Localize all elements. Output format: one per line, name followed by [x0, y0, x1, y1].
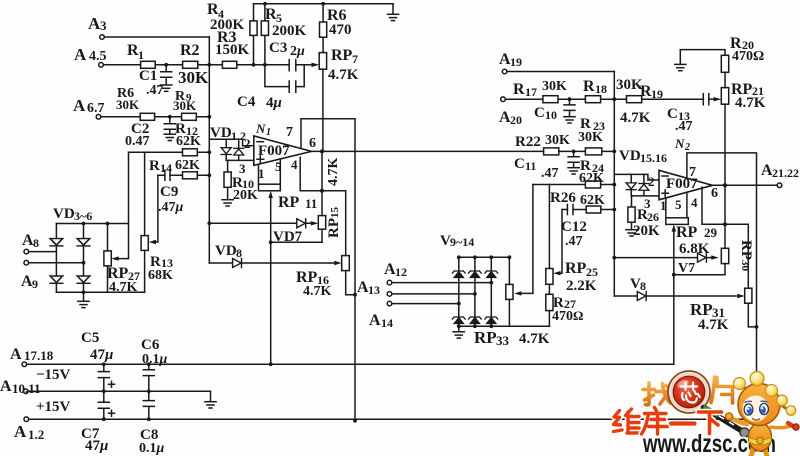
svg-text:.47: .47: [541, 166, 559, 181]
wire vertical to RP33 wiper: [521, 185, 533, 294]
magnifier glass ring: [668, 371, 710, 413]
svg-text:4.7K: 4.7K: [303, 284, 332, 299]
node A6.7 terminal: [96, 115, 101, 120]
svg-text:.47: .47: [565, 234, 583, 249]
wire N2 output: [713, 184, 778, 186]
junction RP11 wiper / RP15 bottom: [269, 240, 273, 244]
svg-text:C: C: [514, 156, 525, 172]
diode VD4: [77, 239, 90, 246]
wire R26b leads: [631, 196, 633, 229]
wire RP27 bottom: [107, 266, 109, 292]
wire A10.11 rail to ground: [28, 391, 210, 401]
svg-text:C: C: [534, 105, 545, 121]
wire A13 to V array col2: [392, 293, 475, 295]
junction R12 at summing line: [207, 150, 211, 154]
svg-text:47μ: 47μ: [85, 438, 108, 454]
junction R4 bottom on R3 wire: [252, 63, 256, 67]
svg-text:14: 14: [381, 316, 393, 330]
junction A14 at col1: [457, 302, 461, 306]
wire N1 clamp box top / pin2: [209, 139, 254, 146]
junction bridge col2 bottom / ground: [82, 290, 86, 294]
mascot antenna stalks: [741, 381, 788, 410]
svg-text:20K: 20K: [633, 223, 660, 239]
junction V array top col2: [473, 255, 477, 259]
junction R14 at summing line: [207, 173, 211, 177]
junction N2 output node: [723, 183, 727, 187]
capacitor C4 loop: [265, 65, 304, 92]
wire A19 to summing vertical N2: [507, 71, 614, 73]
watermark red text ku (库): [642, 408, 668, 435]
op-amp N1 triangle: [254, 136, 312, 166]
svg-text:6: 6: [309, 136, 316, 151]
wire RP29 wiper down to -15V rail: [673, 231, 675, 364]
node A20 terminal: [501, 97, 506, 102]
wire V array col2: [474, 257, 476, 326]
watermark char zhao (找) white halo: [643, 383, 671, 405]
svg-text:11: 11: [525, 159, 536, 173]
svg-text:20: 20: [510, 113, 522, 127]
node A17.18 terminal: [22, 362, 27, 367]
zener V14: [485, 317, 498, 324]
wire C12 R26 branch: [562, 209, 614, 211]
svg-text:4.7K: 4.7K: [326, 158, 341, 187]
node A4.5 terminal: [99, 63, 104, 68]
resistor R26 62K: [586, 206, 601, 213]
svg-text:2: 2: [648, 174, 655, 189]
wire R13 bottom to bridge rail: [144, 250, 146, 292]
mascot legs: [751, 447, 767, 456]
junction C10 node: [568, 97, 572, 101]
wire N1 to N2 coupling row R22 R23: [544, 150, 615, 152]
svg-text:8: 8: [640, 279, 646, 293]
zener V10: [469, 271, 482, 278]
junction V7 wire at summing line: [612, 256, 616, 260]
svg-text:47μ: 47μ: [90, 347, 113, 363]
svg-text:4.7K: 4.7K: [620, 110, 651, 126]
wire N1 pin7 to supply box: [301, 119, 355, 421]
diode VD3: [50, 239, 63, 246]
wire R20 to RP21: [724, 72, 726, 87]
junction V array top RP33: [508, 255, 512, 259]
svg-text:.47μ: .47μ: [158, 200, 184, 215]
svg-text:C12: C12: [561, 219, 587, 235]
svg-text:RP15: RP15: [326, 207, 342, 239]
mascot belt: [749, 437, 771, 445]
svg-text:RP: RP: [676, 224, 698, 241]
svg-text:470Ω: 470Ω: [732, 49, 764, 64]
node A12 terminal: [387, 280, 392, 285]
wire vertical to RP27 wiper: [118, 152, 129, 258]
wire V array col1: [458, 257, 460, 326]
svg-text:C6: C6: [141, 337, 160, 353]
wire RP15 bottom to RP11 wiper column: [271, 241, 322, 243]
ground mid rail: [205, 402, 216, 408]
junction V array top col1: [457, 255, 461, 259]
svg-text:4: 4: [291, 157, 298, 172]
svg-text:4.7K: 4.7K: [109, 280, 138, 295]
svg-text:0.1μ: 0.1μ: [139, 441, 165, 456]
wire R20 ground arm: [680, 50, 725, 64]
svg-text:0.47: 0.47: [125, 134, 150, 149]
potentiometer RP25: [546, 269, 553, 285]
wire -15V rail: [27, 363, 674, 365]
ground top right: [392, 4, 394, 14]
svg-text:2μ: 2μ: [290, 44, 305, 59]
junction N1 output node: [320, 149, 324, 153]
svg-text:7: 7: [352, 52, 358, 66]
svg-text:3: 3: [239, 161, 246, 176]
capacitor C2: [164, 117, 175, 134]
wire vertical to RP25: [548, 185, 550, 269]
wire C9 R14 branch: [158, 174, 209, 176]
capacitor C7: [98, 391, 109, 419]
potentiometer RP15: [318, 216, 325, 230]
junction C8 bottom: [147, 417, 151, 421]
svg-text:C1: C1: [139, 68, 157, 84]
minus sign N1: [257, 141, 264, 143]
mascot mouth: [753, 419, 760, 421]
wire summing vertical N2: [613, 72, 615, 297]
svg-text:13: 13: [368, 283, 380, 297]
potentiometer RP31: [745, 288, 752, 303]
svg-text:4: 4: [691, 195, 698, 210]
svg-text:VD: VD: [53, 206, 75, 222]
svg-text:R: R: [583, 78, 595, 95]
svg-text:RP30: RP30: [738, 240, 754, 272]
junction VD7 wire at summing line: [207, 221, 211, 225]
wire VD8 row: [209, 262, 330, 264]
capacitor C10: [564, 99, 575, 116]
svg-text:12: 12: [395, 265, 407, 279]
svg-text:4.7K: 4.7K: [328, 67, 359, 83]
wiper arrow into RP7: [312, 63, 320, 67]
svg-text:20K: 20K: [233, 188, 258, 203]
wire V array top rail: [459, 256, 510, 258]
wire N1 clamp box bottom / pin3: [226, 139, 254, 160]
node A8 terminal: [24, 249, 29, 254]
diode VD6: [77, 276, 90, 283]
junction RP16 at supply column: [353, 293, 357, 297]
svg-text:62K: 62K: [176, 134, 201, 149]
diode VD2: [234, 148, 244, 155]
wire V array col3: [490, 257, 492, 326]
svg-text:18: 18: [595, 82, 607, 96]
plus sign N1: [257, 156, 264, 163]
svg-text:7: 7: [286, 125, 293, 140]
junction V array bottom col2: [473, 324, 477, 328]
ground below bridge: [83, 292, 85, 301]
svg-text:6.7: 6.7: [87, 101, 105, 116]
svg-text:C5: C5: [81, 330, 99, 346]
junction C7 bottom: [102, 417, 106, 421]
zener V9: [452, 271, 465, 278]
mascot left arm holding handle: [730, 417, 747, 424]
svg-text:7: 7: [689, 165, 696, 180]
ground below R10: [222, 200, 233, 206]
wiper arrow into RP15: [311, 221, 319, 225]
resistor R17: [543, 96, 558, 103]
junction bridge col2 top: [82, 222, 86, 226]
mascot face: [742, 395, 768, 421]
svg-text:1: 1: [138, 48, 144, 62]
wire output down to RP30 node: [724, 185, 726, 248]
svg-text:R26: R26: [550, 190, 576, 206]
wire -15V rail corner up to RP29 wiper column: [673, 363, 675, 365]
ground below R26b: [626, 230, 637, 236]
wire RP25 to R27: [548, 284, 550, 294]
junction R5 top: [263, 2, 267, 6]
junction RP30 top node: [723, 222, 727, 226]
junction A13 at col2: [473, 292, 477, 296]
wire C9 down to R13 wiper: [155, 175, 158, 242]
svg-text:A: A: [369, 312, 381, 329]
potentiometer RP16: [342, 256, 350, 271]
ground below C1: [161, 85, 172, 91]
svg-text:33: 33: [496, 333, 510, 348]
svg-text:RP: RP: [474, 328, 497, 347]
watermark red text yi (一): [671, 420, 695, 427]
diode VD5: [50, 276, 63, 283]
svg-text:VD: VD: [210, 125, 232, 141]
mascot eyes: [744, 404, 753, 415]
resistor R26b 20K: [628, 207, 635, 222]
junction R9 to summing line: [207, 115, 211, 119]
junction C5 top: [102, 362, 106, 366]
svg-text:30K: 30K: [545, 133, 570, 148]
svg-text:17: 17: [525, 85, 537, 99]
resistor R9 30K: [182, 113, 197, 120]
wire N1 output: [312, 150, 544, 152]
mascot antenna bulbs: [734, 378, 746, 390]
resistor R12: [183, 149, 198, 156]
svg-text:1: 1: [266, 127, 271, 138]
wire A14 to V array col1: [392, 303, 459, 305]
wire A12 to V array col3: [392, 282, 492, 284]
svg-text:5: 5: [675, 197, 682, 212]
svg-text:15.16: 15.16: [640, 151, 667, 165]
junction V array top col3: [489, 255, 493, 259]
watermark red text wei (维): [614, 409, 641, 433]
svg-text:21.22: 21.22: [772, 166, 799, 180]
wire N2 pin4: [702, 187, 748, 288]
junction RP30 bottom at RP29 wiper column: [672, 273, 676, 277]
capacitor C9: [165, 170, 170, 180]
svg-text:R: R: [513, 81, 525, 98]
wire RP30 bottom: [674, 264, 725, 275]
wire vertical to R13 top: [144, 152, 146, 235]
svg-text:VD: VD: [619, 148, 641, 164]
wire RP7 bottom to N1 output: [322, 69, 324, 151]
svg-text:RP: RP: [278, 194, 300, 211]
resistor R19: [627, 96, 642, 103]
diode V8: [637, 292, 646, 301]
svg-text:2: 2: [684, 142, 690, 153]
resistor R2: [183, 61, 198, 68]
svg-text:A: A: [10, 346, 22, 363]
svg-text:19: 19: [651, 87, 663, 101]
wire RP16 bottom to supply column: [346, 271, 355, 295]
plus sign C5: [109, 381, 115, 387]
svg-text:3: 3: [100, 18, 107, 33]
capacitor C12: [567, 205, 573, 215]
wire A6.7 input row: [101, 116, 210, 118]
svg-text:68K: 68K: [148, 268, 173, 283]
junction A12 at col3: [489, 281, 493, 285]
wiper arrow RP11: [269, 191, 273, 198]
wiper arrow into R13: [149, 240, 156, 244]
junction R6 top: [321, 2, 325, 6]
capacitor C13: [703, 94, 709, 105]
capacitor C1: [161, 65, 172, 85]
potentiometer RP7: [319, 53, 326, 70]
wire summing vertical N1 (A3 node down to VD8 corner): [208, 37, 210, 263]
diode VD16: [639, 184, 649, 191]
svg-text:C3: C3: [269, 40, 287, 56]
wire A8 to bridge: [29, 251, 57, 253]
junction C1 node: [164, 63, 168, 67]
wire output down to RP15 node: [321, 151, 323, 190]
wire V8 row: [614, 295, 736, 297]
capacitor C5: [98, 364, 109, 391]
svg-text:30K: 30K: [578, 130, 603, 145]
wiper arrow into RP16: [334, 261, 342, 265]
resistor R1: [141, 61, 156, 68]
ground R20 arm: [675, 64, 686, 70]
ground below C10: [564, 117, 575, 123]
capacitor C11: [568, 151, 579, 167]
svg-text:A: A: [0, 378, 12, 395]
svg-text:−15V: −15V: [36, 367, 71, 383]
resistor R4: [250, 21, 257, 36]
svg-text:17.18: 17.18: [24, 348, 54, 363]
svg-text:.47: .47: [146, 83, 164, 98]
svg-text:R22: R22: [515, 134, 541, 150]
resistor R5: [261, 21, 268, 36]
svg-text:R: R: [149, 158, 160, 174]
node A19 terminal: [502, 69, 507, 74]
potentiometer RP33: [506, 284, 513, 299]
svg-text:200K: 200K: [272, 23, 307, 39]
capacitor C6: [143, 364, 154, 391]
svg-text:4.5: 4.5: [89, 49, 107, 64]
wiper arrow into RP21: [714, 97, 722, 101]
potentiometer RP11: [259, 184, 281, 191]
svg-text:5: 5: [275, 159, 282, 174]
wire RP15 node to RP16 column: [322, 191, 346, 256]
junction V array bottom col3: [489, 324, 493, 328]
svg-text:30K: 30K: [116, 97, 140, 112]
op-amp N2 triangle: [659, 170, 713, 200]
node A3 terminal: [100, 35, 105, 40]
node A13 terminal: [387, 292, 392, 297]
diode VD7: [297, 219, 306, 228]
svg-text:9: 9: [32, 277, 38, 291]
junction V array bottom ground: [457, 324, 461, 328]
wire RP27 top to bridge top rail: [107, 224, 109, 251]
resistor R27: [546, 294, 553, 310]
potentiometer RP30: [721, 248, 728, 263]
diode V7: [698, 253, 707, 262]
junction RP15 top node: [320, 189, 324, 193]
wire C12 down to RP25 wiper: [560, 210, 563, 274]
wiper arrow into RP27: [111, 256, 118, 260]
resistor R6b 470: [320, 22, 327, 37]
ground below C11: [568, 168, 579, 174]
junction C5 bottom: [102, 389, 106, 393]
svg-text:3~6: 3~6: [74, 209, 92, 223]
junction R26 at summing vertical: [612, 208, 616, 212]
svg-text:0.1μ: 0.1μ: [142, 352, 168, 367]
svg-text:4.7K: 4.7K: [519, 331, 550, 347]
svg-text:30K: 30K: [542, 79, 567, 94]
svg-text:1.2: 1.2: [28, 427, 44, 442]
resistor R8 30K: [140, 113, 154, 120]
svg-text:10.11: 10.11: [12, 381, 41, 396]
svg-text:6: 6: [711, 186, 718, 201]
wire bridge column 2: [83, 224, 85, 293]
svg-text:19: 19: [510, 55, 522, 69]
node A21.22 terminal: [777, 183, 782, 188]
svg-text:C4: C4: [237, 94, 256, 110]
zener V12: [452, 317, 465, 324]
wire R27 bottom to V array rail: [548, 311, 550, 327]
wire A9 to bridge: [29, 262, 84, 264]
wire R24 feedback branch: [533, 184, 614, 186]
node A10.11 terminal: [24, 389, 29, 394]
svg-text:1: 1: [660, 198, 667, 213]
svg-text:62K: 62K: [175, 158, 200, 173]
svg-text:A: A: [73, 96, 86, 115]
wire V7 row: [614, 257, 711, 259]
svg-text:A: A: [14, 422, 27, 441]
junction C2 node: [168, 115, 172, 119]
wire R12 feedback branch: [129, 151, 210, 153]
svg-text:30K: 30K: [616, 77, 643, 93]
wiper arrow into RP33: [514, 291, 521, 295]
ground below C2: [164, 134, 175, 140]
lens highlight: [676, 378, 690, 389]
svg-text:10: 10: [545, 108, 557, 122]
wire N2 clamp box bottom / pin3: [631, 174, 659, 196]
junction R23 at summing vertical: [612, 150, 616, 154]
svg-text:11: 11: [305, 196, 317, 211]
resistor R23: [585, 148, 601, 155]
wire N2 clamp box top / pin2: [614, 174, 659, 180]
resistor R20: [721, 55, 728, 72]
svg-text:29: 29: [704, 225, 718, 240]
junction R2-R3 on summing line: [207, 63, 211, 67]
resistor R22: [544, 148, 559, 155]
watermark red text xia (下): [699, 412, 722, 434]
wire A4.5 input row: [103, 64, 307, 66]
junction R24 at summing vertical: [612, 183, 616, 187]
junction RP11 wiper at -15V rail: [269, 362, 273, 366]
potentiometer RP21: [721, 88, 728, 105]
svg-text:RP: RP: [331, 47, 353, 64]
svg-text:30K: 30K: [173, 98, 197, 113]
minus sign N2: [662, 175, 668, 177]
wire N2 pin7 to supply box: [687, 153, 757, 420]
wiper arrow into RP30: [711, 255, 719, 259]
svg-text:R2: R2: [180, 42, 200, 59]
svg-text:+15V: +15V: [36, 399, 71, 415]
zener V13: [469, 317, 482, 324]
wire A20 input row: [505, 98, 703, 100]
mascot right arm: [771, 426, 792, 428]
wire top feedback rail: [254, 4, 394, 65]
svg-text:62K: 62K: [579, 171, 604, 186]
wiper arrow RP29: [672, 224, 676, 231]
